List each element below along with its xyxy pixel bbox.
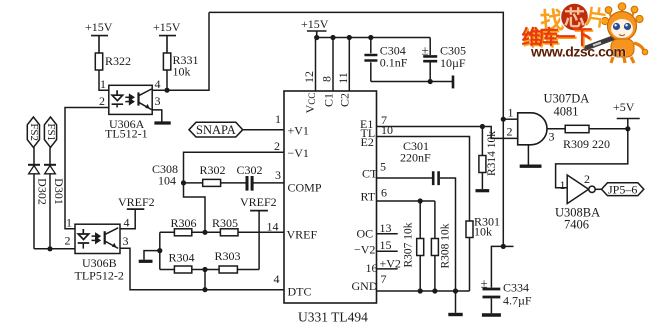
svg-text:220nF: 220nF bbox=[400, 151, 431, 165]
svg-text:10µF: 10µF bbox=[440, 56, 466, 70]
wire C308 node jog down to R306/R305 node bbox=[184, 183, 206, 232]
svg-text:R304: R304 bbox=[169, 251, 195, 265]
svg-text:10: 10 bbox=[381, 123, 393, 137]
power +15V (left, for R322) bbox=[91, 36, 108, 53]
watermark logo dzsc.com bbox=[522, 3, 648, 63]
wire top rail to 4081 pin1 bbox=[209, 12, 503, 119]
wire pin 12 bbox=[315, 38, 317, 92]
node R306/R305 junction bbox=[202, 230, 207, 235]
diode D302 bbox=[28, 147, 40, 248]
U306A pin2 wire to U306B pin1 bbox=[65, 108, 109, 229]
svg-text:7: 7 bbox=[381, 272, 387, 286]
wire 4081 pin1 stub bbox=[503, 118, 517, 120]
svg-text:D302: D302 bbox=[35, 178, 49, 205]
svg-text:U307DA: U307DA bbox=[544, 92, 590, 106]
svg-text:5: 5 bbox=[380, 160, 386, 174]
resistor R331 bbox=[163, 53, 170, 90]
wire U306A pin4 to top rail bbox=[152, 12, 209, 90]
svg-text:4.7µF: 4.7µF bbox=[503, 294, 532, 308]
svg-text:1: 1 bbox=[508, 106, 514, 120]
wire CT (pin 5) bbox=[377, 178, 456, 291]
node C308 bbox=[181, 180, 186, 185]
wire GND rail (pin 7) bbox=[377, 290, 470, 292]
pin 16 (+V2) stub bbox=[377, 268, 398, 270]
ground (left node) bbox=[139, 251, 160, 262]
power +15V (second, for R331) bbox=[159, 36, 176, 53]
svg-text:VREF: VREF bbox=[287, 228, 318, 242]
wire 4081 vertical down to R301 node bbox=[502, 119, 504, 246]
svg-text:14: 14 bbox=[267, 220, 279, 234]
capacitor C304 bbox=[364, 38, 377, 82]
svg-text:6: 6 bbox=[381, 186, 387, 200]
svg-text:E2: E2 bbox=[361, 135, 374, 149]
svg-text:+15V: +15V bbox=[153, 20, 181, 34]
net flag JP5-6 bbox=[602, 183, 644, 196]
svg-text:VREF2: VREF2 bbox=[118, 195, 155, 209]
node R314 tap bbox=[480, 124, 485, 129]
U306A coupling arrows bbox=[125, 95, 133, 104]
capacitor C301 bbox=[433, 171, 438, 185]
optocoupler U306A box bbox=[109, 85, 152, 114]
svg-text:R306: R306 bbox=[171, 216, 197, 230]
resistor R301 bbox=[466, 221, 473, 291]
wire E1 (pin 7/9) to gate bbox=[377, 127, 518, 139]
svg-text:R305: R305 bbox=[212, 216, 238, 230]
wire pin 8 bbox=[332, 38, 334, 92]
svg-text:D301: D301 bbox=[52, 178, 66, 205]
svg-text:15: 15 bbox=[380, 238, 392, 252]
svg-text:4: 4 bbox=[155, 77, 161, 91]
svg-text:U331 TL494: U331 TL494 bbox=[298, 310, 368, 325]
svg-text:±: ± bbox=[481, 276, 488, 291]
svg-text:TL512-1: TL512-1 bbox=[105, 127, 148, 141]
wire RT (pin 6) bbox=[377, 200, 435, 202]
inverter U308BA 7406 bbox=[567, 175, 601, 204]
ground (gate) bbox=[520, 145, 542, 166]
U306A pin3 ground bbox=[152, 110, 171, 123]
svg-text:1: 1 bbox=[560, 178, 566, 192]
resistor R307 bbox=[417, 201, 424, 291]
resistor R314 bbox=[476, 127, 490, 191]
node RT/R307 bbox=[418, 198, 423, 203]
svg-text:4: 4 bbox=[274, 272, 280, 286]
node R309/+5V bbox=[625, 126, 630, 131]
wire VREF row (pin14) bbox=[160, 231, 284, 233]
wire stub right of R301 node bbox=[503, 245, 513, 247]
wire U306B pin2 to diodes bbox=[34, 248, 75, 250]
svg-text:1: 1 bbox=[275, 112, 281, 126]
node rail dots bbox=[314, 35, 319, 40]
power flag VREF2 (right, to pin14) bbox=[250, 211, 268, 270]
resistor R302 bbox=[203, 179, 221, 186]
capacitor C334 (polarized) bbox=[482, 289, 501, 315]
svg-text:16: 16 bbox=[366, 261, 378, 275]
svg-text:C2: C2 bbox=[337, 93, 351, 107]
wire R301 node to C334 bbox=[491, 246, 503, 287]
svg-text:+15V: +15V bbox=[85, 20, 113, 34]
power +15V (third, Vcc rail) bbox=[307, 31, 327, 38]
mascot stick/pen bbox=[586, 35, 621, 48]
svg-text:7406: 7406 bbox=[564, 218, 589, 232]
wire gate output bbox=[547, 128, 565, 130]
mascot head bbox=[609, 8, 634, 21]
power +5V bbox=[617, 119, 640, 130]
svg-text:2: 2 bbox=[274, 139, 280, 153]
svg-text:12: 12 bbox=[302, 71, 316, 83]
logo magnifier circle with xin bbox=[561, 3, 589, 31]
U306B coupling arrows bbox=[92, 234, 100, 243]
resistor R306 bbox=[174, 229, 191, 236]
svg-text:3: 3 bbox=[155, 94, 161, 108]
wire left node vertical bbox=[159, 232, 161, 269]
svg-text:www.dzsc.com: www.dzsc.com bbox=[530, 44, 626, 60]
diode D301 bbox=[44, 147, 56, 248]
svg-text:+5V: +5V bbox=[613, 100, 635, 114]
svg-text:+15V: +15V bbox=[301, 17, 329, 31]
resistor R304 bbox=[174, 266, 191, 273]
U306A phototransistor bbox=[139, 89, 152, 110]
resistor R309 bbox=[565, 125, 628, 132]
power flag VREF2 (left, to U306B pin4) bbox=[120, 209, 144, 229]
IC U331 TL494 box bbox=[284, 91, 377, 303]
pin 15 stub bbox=[377, 250, 398, 252]
svg-text:3: 3 bbox=[275, 168, 281, 182]
wire R304 row bbox=[160, 269, 259, 271]
svg-text:SNAPA: SNAPA bbox=[196, 123, 236, 137]
pin 13 stub bbox=[377, 233, 398, 235]
svg-text:VREF2: VREF2 bbox=[240, 195, 277, 209]
svg-text:10k: 10k bbox=[474, 225, 492, 239]
svg-text:GND: GND bbox=[352, 279, 378, 293]
svg-text:11: 11 bbox=[336, 72, 350, 84]
U306A LED bbox=[112, 90, 124, 107]
svg-text:−V2: −V2 bbox=[354, 243, 375, 257]
svg-text:+V1: +V1 bbox=[288, 124, 309, 138]
svg-text:R307 10k: R307 10k bbox=[403, 222, 415, 267]
U306B LED bbox=[78, 229, 90, 249]
ground tick (cap bottom) bbox=[452, 76, 455, 89]
svg-text:R308 10k: R308 10k bbox=[440, 223, 452, 268]
svg-text:±: ± bbox=[422, 43, 429, 58]
ground (GND rail) bbox=[448, 291, 462, 315]
svg-text:RT: RT bbox=[361, 190, 376, 204]
svg-text:C334: C334 bbox=[503, 281, 529, 295]
svg-text:4081: 4081 bbox=[554, 105, 579, 119]
svg-text:1: 1 bbox=[66, 216, 72, 230]
svg-text:JP5–6: JP5–6 bbox=[608, 183, 637, 197]
svg-text:3: 3 bbox=[549, 130, 555, 144]
node DTC junction bbox=[202, 287, 207, 292]
resistor R303 bbox=[219, 266, 237, 273]
svg-text:R309 220: R309 220 bbox=[563, 137, 610, 151]
resistor R308 bbox=[431, 201, 438, 291]
svg-text:FS1: FS1 bbox=[45, 123, 57, 141]
capacitor C302 bbox=[247, 176, 252, 191]
wire C304/C305 bottom bbox=[371, 81, 453, 83]
net flag FS1 bbox=[44, 117, 56, 147]
U306B phototransistor bbox=[105, 228, 119, 249]
svg-text:4: 4 bbox=[124, 216, 130, 230]
wire pin 11 bbox=[348, 38, 350, 92]
node R301/C334 junction bbox=[501, 244, 506, 249]
svg-text:0.1nF: 0.1nF bbox=[380, 56, 408, 70]
svg-text:R302: R302 bbox=[200, 163, 226, 177]
wire U306B pin3 to DTC row bbox=[120, 248, 284, 289]
AND gate U307DA body bbox=[518, 113, 547, 145]
optocoupler U306B box bbox=[75, 224, 120, 253]
svg-text:2: 2 bbox=[507, 125, 513, 139]
svg-text:C1: C1 bbox=[321, 93, 335, 107]
svg-text:COMP: COMP bbox=[288, 181, 322, 195]
svg-text:CT: CT bbox=[362, 167, 378, 181]
svg-text:TLP512-2: TLP512-2 bbox=[75, 269, 124, 283]
svg-text:3: 3 bbox=[123, 234, 129, 248]
node R304/R303 junction bbox=[202, 267, 207, 272]
svg-text:8: 8 bbox=[319, 76, 333, 82]
node pin4 junction of U306A/R331 bbox=[164, 88, 169, 93]
resistor R322 bbox=[95, 53, 109, 90]
wire E2 (pin 10) to R301 bbox=[377, 137, 470, 222]
wire R304 node down to DTC wire bbox=[204, 270, 206, 290]
svg-text:R303: R303 bbox=[215, 249, 241, 263]
svg-text:C302: C302 bbox=[237, 163, 263, 177]
svg-text:FS2: FS2 bbox=[28, 123, 40, 141]
svg-text:10k: 10k bbox=[173, 65, 191, 79]
svg-text:+V2: +V2 bbox=[380, 257, 401, 271]
svg-text:2: 2 bbox=[65, 234, 71, 248]
wire +5V node down to 7406 input bbox=[556, 129, 628, 188]
wire Vcc rail bbox=[317, 37, 431, 39]
resistor R305 bbox=[220, 229, 238, 236]
svg-text:R314 10k: R314 10k bbox=[486, 131, 498, 176]
wire COMP row bbox=[184, 182, 285, 184]
net flag FS2 bbox=[27, 117, 39, 147]
svg-text:104: 104 bbox=[158, 174, 176, 188]
svg-text:DTC: DTC bbox=[288, 285, 312, 299]
mascot body bbox=[611, 39, 634, 57]
capacitor C305 (polarized) bbox=[423, 38, 437, 82]
svg-text:2: 2 bbox=[99, 94, 105, 108]
node left ground junction bbox=[157, 248, 162, 253]
node D301 junction bbox=[47, 246, 52, 251]
wire -V1 from C308 node bbox=[184, 152, 285, 183]
svg-text:R322: R322 bbox=[105, 54, 131, 68]
svg-text:2: 2 bbox=[584, 172, 590, 186]
svg-text:−V1: −V1 bbox=[288, 146, 309, 160]
svg-text:OC: OC bbox=[357, 227, 374, 241]
net flag SNAPA bbox=[189, 122, 243, 137]
svg-text:1: 1 bbox=[100, 77, 106, 91]
wire SNAPA to TL494 pin1 bbox=[243, 129, 284, 131]
svg-text:13: 13 bbox=[380, 221, 392, 235]
node 4081 pin1 tap bbox=[501, 117, 506, 122]
